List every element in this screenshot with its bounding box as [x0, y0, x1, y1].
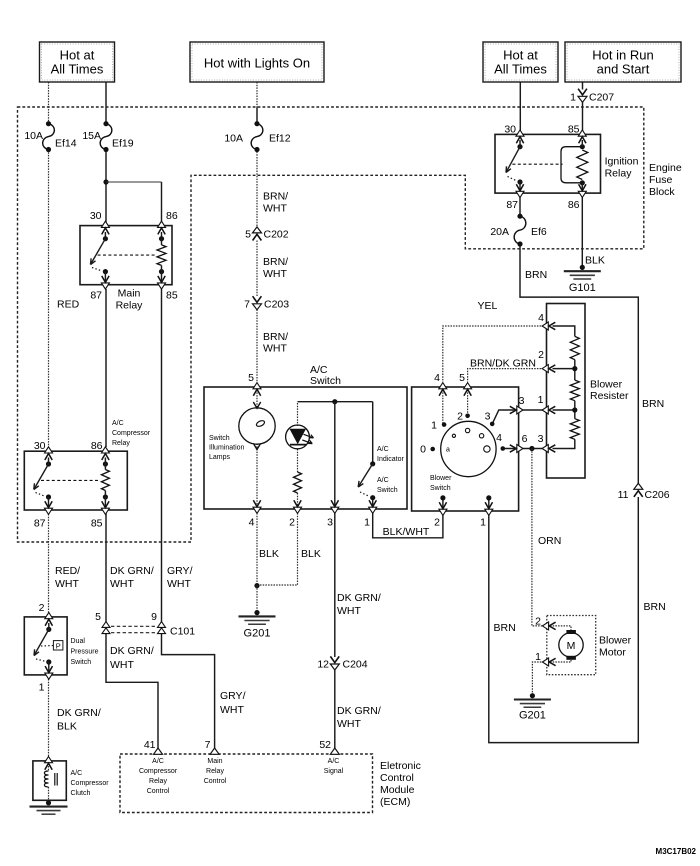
- svg-text:All Times: All Times: [51, 62, 104, 77]
- svg-text:3: 3: [485, 411, 491, 423]
- svg-text:A/C: A/C: [71, 770, 83, 777]
- svg-text:10A: 10A: [24, 130, 43, 142]
- svg-text:M: M: [567, 640, 576, 652]
- svg-text:85: 85: [568, 124, 580, 136]
- svg-text:BLK: BLK: [57, 721, 77, 733]
- svg-text:DK GRN/: DK GRN/: [110, 565, 154, 577]
- svg-text:Compressor: Compressor: [139, 768, 178, 775]
- svg-text:86: 86: [166, 210, 178, 222]
- svg-text:G201: G201: [519, 709, 546, 721]
- svg-text:YEL: YEL: [478, 300, 498, 312]
- svg-text:C203: C203: [264, 299, 289, 311]
- svg-text:C206: C206: [645, 489, 670, 501]
- svg-text:7: 7: [205, 739, 211, 751]
- svg-text:1: 1: [480, 517, 486, 529]
- svg-text:Hot with Lights On: Hot with Lights On: [204, 56, 310, 71]
- svg-text:GRY/: GRY/: [167, 565, 193, 577]
- svg-text:A/C: A/C: [377, 477, 389, 484]
- svg-text:Blower: Blower: [430, 475, 452, 482]
- svg-text:WHT: WHT: [263, 343, 287, 355]
- svg-text:A/C: A/C: [377, 446, 389, 453]
- svg-text:C207: C207: [589, 92, 614, 104]
- svg-text:Engine: Engine: [649, 162, 682, 174]
- svg-text:WHT: WHT: [337, 718, 361, 730]
- svg-text:5: 5: [459, 372, 465, 384]
- svg-text:Relay: Relay: [206, 768, 224, 775]
- svg-text:BLK: BLK: [259, 548, 279, 560]
- svg-text:1: 1: [535, 651, 541, 663]
- svg-text:86: 86: [568, 199, 580, 211]
- svg-text:1: 1: [570, 92, 576, 104]
- svg-text:Relay: Relay: [112, 440, 130, 447]
- svg-text:2: 2: [535, 616, 541, 628]
- svg-text:Switch: Switch: [377, 487, 398, 494]
- svg-text:1: 1: [431, 420, 437, 432]
- svg-text:P: P: [56, 642, 61, 651]
- svg-text:Ef19: Ef19: [112, 138, 134, 150]
- svg-text:Switch: Switch: [310, 375, 341, 387]
- svg-text:30: 30: [90, 210, 102, 222]
- svg-text:BRN/: BRN/: [263, 191, 288, 203]
- svg-text:WHT: WHT: [110, 659, 134, 671]
- svg-text:Relay: Relay: [149, 778, 167, 785]
- svg-text:A/C: A/C: [328, 758, 340, 765]
- svg-text:Switch: Switch: [209, 435, 230, 442]
- svg-text:Switch: Switch: [430, 485, 451, 492]
- svg-text:1: 1: [538, 394, 544, 406]
- svg-text:DK GRN/: DK GRN/: [337, 705, 381, 717]
- svg-text:WHT: WHT: [55, 578, 79, 590]
- svg-text:DK GRN/: DK GRN/: [337, 592, 381, 604]
- svg-text:BLK/WHT: BLK/WHT: [383, 526, 430, 538]
- svg-text:BRN/: BRN/: [263, 256, 288, 268]
- svg-text:(ECM): (ECM): [380, 796, 410, 808]
- svg-text:2: 2: [538, 349, 544, 361]
- svg-text:ORN: ORN: [538, 535, 561, 547]
- svg-text:52: 52: [319, 739, 331, 751]
- svg-text:5: 5: [248, 372, 254, 384]
- svg-text:All Times: All Times: [494, 62, 547, 77]
- svg-text:Ignition: Ignition: [605, 156, 639, 168]
- svg-text:Motor: Motor: [599, 647, 626, 659]
- svg-text:A/C: A/C: [112, 420, 124, 427]
- svg-text:A/C: A/C: [152, 758, 164, 765]
- svg-text:86: 86: [91, 440, 103, 452]
- svg-text:1: 1: [39, 682, 45, 694]
- svg-text:Ef6: Ef6: [531, 226, 547, 238]
- svg-text:Compressor: Compressor: [71, 780, 110, 787]
- svg-text:DK GRN/: DK GRN/: [110, 645, 154, 657]
- svg-text:30: 30: [504, 124, 516, 136]
- svg-text:WHT: WHT: [110, 578, 134, 590]
- svg-text:C101: C101: [170, 626, 195, 638]
- svg-text:87: 87: [90, 290, 102, 302]
- svg-text:C202: C202: [264, 229, 289, 241]
- svg-text:and Start: and Start: [597, 62, 650, 77]
- svg-text:4: 4: [496, 432, 502, 444]
- svg-text:WHT: WHT: [263, 268, 287, 280]
- svg-text:G201: G201: [244, 628, 271, 640]
- svg-text:RED: RED: [57, 299, 80, 311]
- svg-text:M3C17B02: M3C17B02: [656, 847, 697, 856]
- svg-text:4: 4: [434, 372, 440, 384]
- svg-text:3: 3: [519, 395, 525, 407]
- svg-text:85: 85: [91, 518, 103, 530]
- svg-text:WHT: WHT: [167, 578, 191, 590]
- svg-text:Main: Main: [118, 288, 141, 300]
- svg-text:GRY/: GRY/: [220, 690, 246, 702]
- svg-text:Resister: Resister: [590, 390, 629, 402]
- svg-text:Switch: Switch: [71, 659, 92, 666]
- svg-text:2: 2: [457, 411, 463, 423]
- svg-text:6: 6: [522, 433, 528, 445]
- svg-text:WHT: WHT: [263, 203, 287, 215]
- svg-text:Control: Control: [204, 778, 227, 785]
- svg-text:3: 3: [538, 433, 544, 445]
- svg-text:Signal: Signal: [324, 768, 344, 775]
- svg-text:Eletronic: Eletronic: [380, 760, 421, 772]
- svg-text:Control: Control: [380, 772, 414, 784]
- svg-text:30: 30: [34, 440, 46, 452]
- svg-text:Control: Control: [147, 788, 170, 795]
- svg-text:RED/: RED/: [55, 565, 80, 577]
- svg-text:Indicator: Indicator: [377, 456, 405, 463]
- svg-text:4: 4: [249, 517, 255, 529]
- svg-text:85: 85: [166, 290, 178, 302]
- svg-text:WHT: WHT: [337, 605, 361, 617]
- svg-text:Illumination: Illumination: [209, 445, 245, 452]
- svg-text:Compressor: Compressor: [112, 430, 151, 437]
- svg-text:10A: 10A: [224, 133, 243, 145]
- svg-text:12: 12: [317, 659, 329, 671]
- svg-text:BLK: BLK: [301, 548, 321, 560]
- svg-text:Blower: Blower: [599, 635, 632, 647]
- svg-text:2: 2: [289, 517, 295, 529]
- svg-text:G101: G101: [569, 282, 596, 294]
- svg-text:Fuse: Fuse: [649, 174, 673, 186]
- svg-text:4: 4: [538, 312, 544, 324]
- svg-text:Hot at: Hot at: [60, 48, 95, 63]
- svg-text:87: 87: [506, 199, 518, 211]
- svg-text:WHT: WHT: [220, 704, 244, 716]
- svg-text:Ef12: Ef12: [269, 133, 291, 145]
- svg-text:2: 2: [434, 517, 440, 529]
- svg-text:5: 5: [245, 229, 251, 241]
- svg-text:Relay: Relay: [116, 300, 144, 312]
- svg-text:0: 0: [420, 444, 426, 456]
- svg-text:BRN: BRN: [494, 622, 516, 634]
- svg-text:Lamps: Lamps: [209, 454, 231, 461]
- svg-text:a: a: [446, 447, 450, 454]
- svg-text:Blower: Blower: [590, 379, 623, 391]
- svg-text:20A: 20A: [490, 226, 509, 238]
- svg-text:BLK: BLK: [585, 255, 605, 267]
- svg-text:Clutch: Clutch: [71, 790, 91, 797]
- svg-text:Module: Module: [380, 784, 415, 796]
- svg-text:2: 2: [39, 602, 45, 614]
- svg-text:Relay: Relay: [605, 168, 633, 180]
- svg-text:C204: C204: [343, 659, 368, 671]
- svg-text:BRN: BRN: [644, 601, 666, 613]
- svg-text:BRN/: BRN/: [263, 331, 288, 343]
- svg-text:Pressure: Pressure: [71, 649, 99, 656]
- svg-text:3: 3: [327, 517, 333, 529]
- svg-text:Ef14: Ef14: [55, 138, 77, 150]
- svg-text:Hot in Run: Hot in Run: [592, 48, 653, 63]
- svg-text:Block: Block: [649, 186, 675, 198]
- svg-text:DK GRN/: DK GRN/: [57, 707, 101, 719]
- svg-text:87: 87: [34, 518, 46, 530]
- svg-text:BRN: BRN: [525, 269, 547, 281]
- svg-text:BRN: BRN: [642, 398, 664, 410]
- svg-text:7: 7: [244, 299, 250, 311]
- svg-text:BRN/DK GRN: BRN/DK GRN: [470, 358, 536, 370]
- svg-text:15A: 15A: [82, 130, 101, 142]
- svg-text:9: 9: [151, 611, 157, 623]
- svg-text:Dual: Dual: [71, 638, 86, 645]
- svg-text:Hot at: Hot at: [503, 48, 538, 63]
- svg-text:11: 11: [618, 489, 629, 501]
- svg-text:1: 1: [364, 517, 370, 529]
- svg-text:Main: Main: [207, 758, 222, 765]
- svg-text:5: 5: [95, 611, 101, 623]
- svg-text:41: 41: [144, 739, 156, 751]
